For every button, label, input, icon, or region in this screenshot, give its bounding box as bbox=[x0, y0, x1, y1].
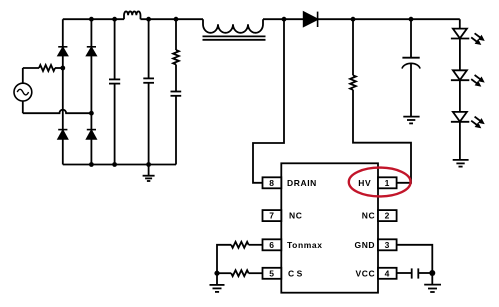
svg-text:8: 8 bbox=[269, 178, 274, 188]
svg-text:HV: HV bbox=[358, 178, 371, 188]
svg-text:7: 7 bbox=[269, 211, 274, 221]
svg-text:4: 4 bbox=[385, 268, 390, 278]
svg-text:1: 1 bbox=[385, 178, 390, 188]
svg-text:3: 3 bbox=[385, 240, 390, 250]
svg-text:CS: CS bbox=[288, 268, 305, 278]
svg-text:6: 6 bbox=[269, 240, 274, 250]
svg-text:2: 2 bbox=[385, 211, 390, 221]
svg-text:NC: NC bbox=[289, 211, 302, 221]
svg-text:Tonmax: Tonmax bbox=[287, 240, 323, 250]
svg-text:VCC: VCC bbox=[355, 268, 375, 278]
svg-text:GND: GND bbox=[354, 240, 375, 250]
svg-text:5: 5 bbox=[269, 268, 274, 278]
svg-text:DRAIN: DRAIN bbox=[287, 178, 317, 188]
svg-text:NC: NC bbox=[362, 211, 375, 221]
